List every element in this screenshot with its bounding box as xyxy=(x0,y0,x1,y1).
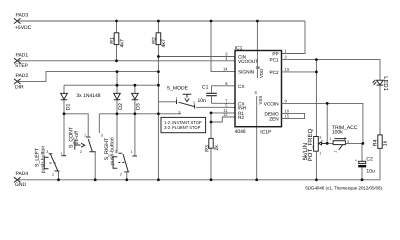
capacitor C1 xyxy=(198,85,236,104)
svg-text:15: 15 xyxy=(285,114,290,119)
svg-text:3: 3 xyxy=(73,137,75,141)
switch S_MODE xyxy=(158,85,235,114)
svg-text:INH: INH xyxy=(238,105,246,110)
svg-text:2: 2 xyxy=(80,150,82,154)
svg-text:2: 2 xyxy=(193,101,195,105)
svg-text:1: 1 xyxy=(329,137,331,141)
junction VCOIN line at wiper drop xyxy=(326,102,329,105)
svg-text:2: 2 xyxy=(115,150,117,154)
svg-text:PAD4: PAD4 xyxy=(16,171,29,177)
diode D3 xyxy=(132,85,142,114)
svg-text:3x 1N4148: 3x 1N4148 xyxy=(76,93,100,99)
junction D3 top on diode rail xyxy=(134,84,137,87)
wire PC1/PC2 vertical to pot top xyxy=(315,60,317,137)
svg-text:100k: 100k xyxy=(332,130,343,136)
junction S_CONT on GND rail xyxy=(94,178,97,181)
wire switch bottom rail (D2,D3 nets) xyxy=(99,113,181,115)
junction R1 bottom on STEP net xyxy=(115,59,118,62)
svg-text:DIR: DIR xyxy=(15,84,24,90)
svg-text:VDD: VDD xyxy=(259,69,264,78)
wire 5V to SIGNIN pin14 xyxy=(211,21,235,72)
note box xyxy=(161,117,206,132)
junction diode rail at R2 vertical xyxy=(157,84,160,87)
wire CIN net (R2 to pin3) xyxy=(158,56,235,58)
wire R2 vertical down to S_MODE and GND xyxy=(157,57,159,180)
junction S_LEFT on GND rail xyxy=(57,178,60,181)
wire PC1 pin2 net xyxy=(282,60,381,80)
svg-text:2k: 2k xyxy=(214,145,220,151)
wire D1 net to S_LEFT pin1 xyxy=(63,114,65,156)
resistor R3 xyxy=(205,138,220,179)
svg-text:D3: D3 xyxy=(136,103,142,110)
svg-text:14: 14 xyxy=(223,67,228,72)
svg-text:PAD2: PAD2 xyxy=(16,73,29,79)
junction VSS on GND rail xyxy=(255,178,258,181)
junction D1 bottom node xyxy=(63,112,66,115)
wire VDD pin16 xyxy=(256,21,258,78)
pad PAD1 xyxy=(14,52,29,69)
trimmer TRIM_ACC xyxy=(327,125,363,152)
wire VCOIN pin9 net xyxy=(282,103,363,143)
svg-text:STEP: STEP xyxy=(15,63,29,69)
svg-text:S_LEFT: S_LEFT xyxy=(35,147,41,167)
svg-text:R2: R2 xyxy=(151,37,157,44)
junction SIGNIN drop on +5V rail xyxy=(210,20,213,23)
potentiometer POT_FREQ xyxy=(302,129,327,180)
wire VSS pin8 to GND xyxy=(256,96,258,180)
diode D2 xyxy=(114,85,124,114)
junction GND vertical on GND rail xyxy=(157,178,160,181)
svg-text:POT_FREQ: POT_FREQ xyxy=(307,129,314,162)
junction pin12 jog at R3 vertical xyxy=(210,121,213,124)
junction D2 bottom node xyxy=(116,112,119,115)
wire STEP net xyxy=(17,60,235,62)
resistor R1 xyxy=(110,21,126,61)
junction R1 top on +5V rail xyxy=(115,20,118,23)
svg-text:2: 2 xyxy=(120,173,122,177)
IC1 right pin numbers xyxy=(285,49,290,119)
svg-text:IC1: IC1 xyxy=(235,46,243,52)
svg-text:D2: D2 xyxy=(118,103,124,110)
svg-text:PAD1: PAD1 xyxy=(16,52,29,58)
svg-text:1: 1 xyxy=(61,152,63,156)
switch S_LEFT xyxy=(35,146,67,180)
svg-text:SDG4046 (v1, Thomeeque 2012/05: SDG4046 (v1, Thomeeque 2012/05/06) xyxy=(305,185,383,190)
svg-text:3-2: FLUENT STOP: 3-2: FLUENT STOP xyxy=(164,125,201,130)
IC1 right pin names xyxy=(264,52,279,122)
svg-text:PP: PP xyxy=(272,52,278,57)
pad PAD2 xyxy=(14,73,28,90)
pad PAD3 xyxy=(14,13,32,32)
wire DIR net xyxy=(17,72,158,82)
junction pin11 net at R3 drop xyxy=(210,112,213,115)
wire R1(ic) pin11 net to R3 xyxy=(211,113,235,138)
svg-text:4046: 4046 xyxy=(235,129,246,135)
junction DIR net tee xyxy=(157,70,160,73)
junction R3 on GND rail xyxy=(210,178,213,181)
pad PAD4 xyxy=(14,171,28,188)
switch S_RIGHT xyxy=(101,134,137,180)
junction PC2 tee xyxy=(315,71,318,74)
svg-text:VSS: VSS xyxy=(258,96,263,105)
svg-text:IC1P: IC1P xyxy=(260,130,272,136)
svg-text:+5VDC: +5VDC xyxy=(15,25,32,31)
svg-text:R3: R3 xyxy=(205,145,211,152)
svg-text:4k7: 4k7 xyxy=(161,39,167,47)
svg-text:C1: C1 xyxy=(202,85,209,91)
svg-text:1: 1 xyxy=(84,134,86,138)
svg-text:3: 3 xyxy=(347,140,349,144)
resistor R4 xyxy=(372,135,388,180)
svg-text:10u: 10u xyxy=(366,169,375,175)
svg-text:3: 3 xyxy=(101,134,103,138)
svg-text:1: 1 xyxy=(319,151,321,155)
junction DIR drop to diode rail xyxy=(116,70,119,73)
IC1 left pin numbers xyxy=(223,52,228,118)
svg-text:PC1: PC1 xyxy=(269,58,279,63)
svg-text:LED1: LED1 xyxy=(382,76,388,91)
svg-text:VCOIN: VCOIN xyxy=(264,101,279,106)
svg-text:1k: 1k xyxy=(382,140,388,146)
capacitor C2 xyxy=(355,143,375,179)
svg-text:1: 1 xyxy=(130,150,132,154)
wire D1 net to S_CONT xyxy=(64,114,88,137)
wire D3 drop to S_RIGHT pin1 xyxy=(134,114,136,156)
svg-text:ZEN: ZEN xyxy=(269,117,278,122)
wire diode top rail xyxy=(64,84,158,86)
wire D2 drop to S_RIGHT xyxy=(116,114,118,154)
svg-text:13: 13 xyxy=(285,67,290,72)
junction trimmer pin3 / C2 top xyxy=(362,142,365,145)
junction C2 on GND rail xyxy=(361,178,364,181)
junction R2 top on +5V rail xyxy=(157,20,160,23)
wire GND rail xyxy=(17,179,380,181)
svg-text:GND: GND xyxy=(15,182,27,188)
wire PC2 pin13 xyxy=(282,71,317,73)
svg-text:2: 2 xyxy=(321,139,323,143)
wire VCOIN branch to wiper junction xyxy=(326,103,328,143)
junction PC1 net at PC2 drop xyxy=(315,58,318,61)
svg-text:1: 1 xyxy=(176,96,178,100)
svg-text:10n: 10n xyxy=(198,98,207,104)
svg-text:PAD3: PAD3 xyxy=(16,13,29,19)
svg-text:CX: CX xyxy=(238,84,245,89)
svg-text:2: 2 xyxy=(52,173,54,177)
svg-text:12: 12 xyxy=(223,112,228,117)
svg-text:R2: R2 xyxy=(238,115,244,120)
wire 5V to PP pin1 xyxy=(282,21,306,54)
svg-text:PC2: PC2 xyxy=(269,70,279,75)
switch S_CONT xyxy=(68,126,95,180)
resistor R2 xyxy=(151,21,167,57)
svg-text:SIGNIN: SIGNIN xyxy=(238,70,254,75)
wire DIR drop to diode rail xyxy=(116,72,118,86)
IC1 power pin names xyxy=(255,65,265,105)
svg-text:R4: R4 xyxy=(372,139,378,146)
wire R2(ic) pin12 jog xyxy=(211,117,235,122)
IC1 left pin names xyxy=(238,54,258,120)
junction D2 top on diode rail xyxy=(116,84,119,87)
svg-text:S_MODE: S_MODE xyxy=(167,85,189,91)
svg-text:3: 3 xyxy=(46,150,48,154)
diode D1 xyxy=(61,85,72,114)
svg-text:16: 16 xyxy=(255,65,260,70)
junction pot wiper / trimmer pin1 xyxy=(326,142,329,145)
op IC1 box xyxy=(235,46,282,136)
junction VDD drop on +5V rail xyxy=(256,20,259,23)
svg-text:C2: C2 xyxy=(366,156,373,162)
junction S_RIGHT on GND rail xyxy=(125,178,128,181)
svg-text:2: 2 xyxy=(334,150,338,152)
svg-text:3: 3 xyxy=(178,110,180,114)
junction R2 bottom on CIN net xyxy=(157,55,160,58)
wire +5V rail xyxy=(17,20,305,22)
svg-text:VCOOUT: VCOOUT xyxy=(238,59,258,64)
wire S_RIGHT pin3 stub xyxy=(98,114,100,133)
svg-text:4k7: 4k7 xyxy=(119,39,125,47)
svg-text:R1: R1 xyxy=(110,37,116,44)
LED LED1 xyxy=(372,76,388,135)
junction D3 bottom node xyxy=(134,112,137,115)
wire DEMO/ZEN pins10,15 xyxy=(282,113,305,118)
junction pot bottom on GND rail xyxy=(315,178,318,181)
junction switch rail at GND vertical xyxy=(157,112,160,115)
svg-text:D1: D1 xyxy=(65,103,71,110)
